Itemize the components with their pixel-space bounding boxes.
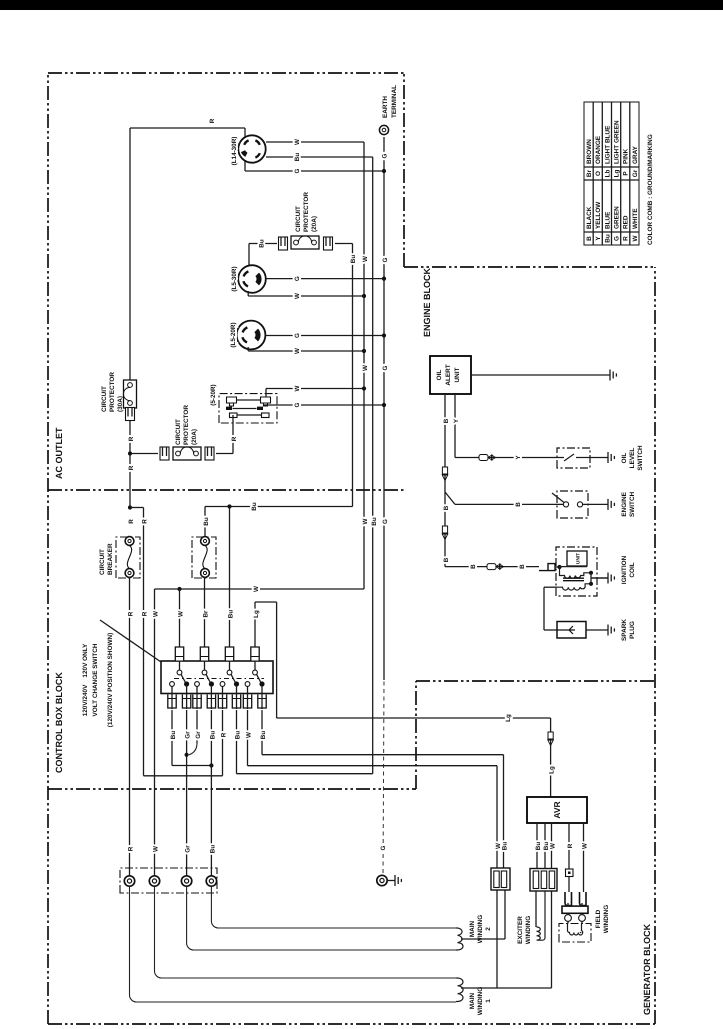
svg-text:W: W	[153, 846, 160, 852]
wire: switch out 3 Gr joining	[196, 710, 198, 743]
svg-text:Bu: Bu	[203, 517, 210, 526]
svg-text:RED: RED	[623, 215, 630, 229]
coil primary terminal	[539, 564, 555, 571]
svg-text:1: 1	[485, 999, 492, 1003]
svg-text:R: R	[142, 519, 149, 524]
wire: B to ignition coil	[445, 566, 539, 568]
svg-text:(L14-30R): (L14-30R)	[231, 137, 238, 166]
wire: G bus (solid part)	[383, 137, 385, 680]
coil core	[563, 580, 584, 582]
coil primary winding	[560, 567, 591, 578]
border: control box / generator boundary	[48, 788, 416, 790]
svg-text:P: P	[623, 171, 630, 176]
svg-text:VOLT CHANGE SWITCH: VOLT CHANGE SWITCH	[92, 643, 99, 716]
main winding 2 (Bu/Gr legs)	[187, 886, 456, 950]
spark plug symbol	[557, 626, 575, 634]
connector: Lg bullet	[548, 732, 553, 739]
wire: W to switch terminal 1	[179, 589, 181, 645]
svg-text:W: W	[550, 843, 557, 849]
svg-text:PROTECTOR: PROTECTOR	[109, 372, 116, 412]
svg-text:OIL: OIL	[436, 370, 443, 381]
wire + ground: ignition coil	[592, 577, 608, 579]
svg-text:SWITCH: SWITCH	[637, 445, 644, 471]
connector: coil B bullet	[487, 564, 504, 570]
svg-text:B: B	[515, 502, 522, 507]
svg-text:B: B	[586, 236, 593, 241]
wire: L14-30R Bu drop	[266, 156, 373, 158]
svg-text:WINDING: WINDING	[477, 987, 484, 1015]
svg-text:ORANGE: ORANGE	[595, 135, 602, 164]
svg-text:SWITCH: SWITCH	[629, 491, 636, 517]
svg-text:G: G	[294, 333, 301, 338]
exciter winding coil	[535, 891, 537, 927]
svg-text:Bu: Bu	[260, 731, 267, 740]
svg-text:MAIN: MAIN	[469, 992, 476, 1009]
wire: OAU B	[444, 394, 446, 567]
svg-text:BLACK: BLACK	[586, 206, 593, 229]
wire: L14-30R W drop	[266, 141, 364, 143]
svg-text:(L5-20R): (L5-20R)	[230, 322, 237, 347]
connector: switch output 4 Bu	[207, 695, 215, 709]
svg-text:CIRCUIT: CIRCUIT	[101, 386, 108, 412]
wire: Bu branch to switch terminal 3	[229, 507, 231, 646]
svg-text:PINK: PINK	[623, 148, 630, 164]
svg-text:Gr: Gr	[632, 169, 639, 177]
connector: switch input term Lg	[251, 647, 259, 661]
receptacle L5-20R	[237, 321, 266, 350]
svg-text:Bu: Bu	[371, 517, 378, 526]
svg-text:Bu: Bu	[259, 239, 266, 248]
wire: CP to Bu bus	[335, 243, 353, 245]
switch pole 1	[179, 661, 181, 671]
svg-text:CIRCUIT: CIRCUIT	[295, 206, 302, 232]
connector: switch output 7 W	[243, 695, 251, 709]
svg-text:W: W	[632, 235, 639, 242]
ignition coil box	[556, 547, 597, 596]
CB1 terminals and curve	[125, 537, 134, 546]
svg-text:Bu: Bu	[294, 153, 301, 162]
connector: CP20A output plug	[324, 237, 333, 250]
svg-text:R: R	[128, 436, 135, 441]
svg-text:B: B	[470, 564, 477, 569]
switch linkage dash line	[174, 678, 264, 680]
border: bottom edge	[654, 267, 656, 1024]
switch pole 4	[254, 661, 256, 671]
svg-text:Gr: Gr	[185, 731, 192, 739]
oil level switch box	[557, 448, 590, 468]
connector: switch output 8 Bu	[258, 695, 266, 709]
svg-text:Bu: Bu	[535, 842, 542, 851]
svg-text:R: R	[221, 732, 228, 737]
border: top edge of blocks	[47, 73, 49, 1024]
wire: Bu bus corner down	[205, 506, 353, 508]
svg-text:Bu: Bu	[350, 255, 357, 264]
switch pole 2	[204, 661, 206, 671]
svg-text:BLUE: BLUE	[604, 211, 611, 229]
wire: L14-30R R link	[244, 128, 246, 171]
svg-text:Gr: Gr	[195, 731, 202, 739]
wire: Bu bus (from CP 20A)	[352, 244, 354, 507]
connector: switch output 5 R	[218, 695, 226, 709]
border: AC outlet bottom right	[403, 73, 405, 267]
color code table	[584, 102, 639, 245]
svg-text:EXCITER: EXCITER	[517, 916, 524, 944]
receptacle L5-30R	[238, 265, 266, 293]
wire: G bus (dashed part to generator)	[383, 680, 384, 881]
svg-text:120V/240V 120V ONLY: 120V/240V 120V ONLY	[82, 643, 89, 716]
wire: AVR R to field	[568, 823, 570, 869]
svg-text:W: W	[362, 256, 369, 262]
svg-text:W: W	[294, 293, 301, 299]
svg-text:G: G	[380, 845, 387, 850]
svg-text:G: G	[382, 257, 389, 262]
svg-text:Lg: Lg	[253, 610, 260, 618]
svg-text:B: B	[443, 557, 450, 562]
main winding 2P connector	[491, 868, 510, 890]
svg-text:W: W	[582, 843, 589, 849]
wire: 5-20R W drop	[265, 389, 267, 398]
svg-text:R: R	[567, 843, 574, 848]
svg-text:FIELD: FIELD	[595, 909, 602, 928]
coil secondary winding	[557, 584, 591, 590]
spark plug box	[557, 622, 586, 639]
border: engine block left edge	[416, 680, 655, 682]
svg-text:SPARK: SPARK	[621, 619, 628, 641]
svg-text:Y: Y	[515, 455, 522, 460]
volt change switch box	[161, 661, 273, 694]
wire: CB2 to switch terminal 2 (Br)	[204, 577, 206, 645]
wire: switch out 8 Bu to main winding connector	[261, 710, 263, 755]
wire: W bus corner down	[155, 588, 364, 590]
main winding 1 coil	[456, 978, 463, 1002]
wire: switch out 4 Bu to Bu terminal	[210, 710, 212, 881]
svg-text:R: R	[128, 465, 135, 470]
svg-text:Bu: Bu	[235, 731, 242, 740]
wire: OAU to ground	[471, 374, 610, 376]
wire: coil secondary to spark plug	[544, 586, 557, 588]
svg-text:COLOR COMB : GROUND/MARKING: COLOR COMB : GROUND/MARKING	[647, 134, 654, 245]
svg-text:(5-20R): (5-20R)	[210, 384, 217, 405]
svg-text:G: G	[614, 236, 621, 241]
svg-text:Bu: Bu	[209, 845, 216, 854]
svg-text:Bu: Bu	[228, 610, 235, 619]
svg-text:G: G	[294, 276, 301, 281]
wire: L5-30R G drop	[266, 278, 385, 280]
receptacle 5-20R duplex box	[219, 394, 277, 423]
svg-text:R: R	[128, 519, 135, 524]
wire: L14-30R G drop	[245, 170, 384, 172]
engine switch box	[557, 491, 588, 518]
svg-text:W: W	[253, 586, 260, 592]
svg-text:YELLOW: YELLOW	[595, 201, 602, 229]
svg-text:ENGINE: ENGINE	[621, 491, 628, 516]
connector: switch input term Br	[200, 647, 208, 661]
svg-text:BROWN: BROWN	[586, 139, 593, 164]
svg-text:R: R	[209, 118, 216, 123]
svg-text:BREAKER: BREAKER	[107, 543, 114, 575]
switch pole 3	[229, 661, 231, 671]
page edge black bar	[0, 0, 723, 10]
svg-text:AC OUTLET: AC OUTLET	[54, 427, 64, 479]
UNIT box	[567, 551, 587, 566]
wire: CP20A-2 to R bus	[130, 453, 158, 455]
wire: switch out 1 Bu	[171, 710, 173, 766]
terminal W	[149, 876, 159, 886]
svg-text:W: W	[294, 385, 301, 391]
svg-text:(30A): (30A)	[117, 396, 124, 412]
svg-text:GRAY: GRAY	[632, 145, 639, 164]
svg-text:W: W	[362, 518, 369, 524]
svg-text:W: W	[294, 348, 301, 354]
svg-text:WHITE: WHITE	[632, 208, 639, 229]
wire: L5-30R W drop	[247, 291, 249, 296]
svg-text:UNIT: UNIT	[576, 553, 582, 564]
5-20R neutral T slots	[227, 397, 237, 406]
svg-text:Br: Br	[586, 169, 593, 177]
svg-text:MAIN: MAIN	[469, 920, 476, 937]
wire + ground: oil level switch	[590, 457, 608, 459]
wires AVR to exciter connector	[536, 823, 538, 869]
5-20R ground slots	[230, 413, 238, 418]
svg-text:Lg: Lg	[505, 714, 512, 722]
svg-text:Y: Y	[453, 418, 460, 423]
connector: CP20A-2 output plug	[205, 447, 214, 460]
terminal R	[124, 876, 134, 886]
connector: switch output 6 Bu	[232, 695, 240, 709]
svg-text:CONTROL BOX BLOCK: CONTROL BOX BLOCK	[54, 672, 64, 773]
svg-text:Br: Br	[203, 610, 210, 618]
border: right edge (AC outlet)	[48, 72, 404, 74]
svg-text:CIRCUIT: CIRCUIT	[175, 419, 182, 445]
svg-text:CIRCUIT: CIRCUIT	[99, 549, 106, 575]
connector: switch output 3 Gr	[193, 695, 201, 709]
circuit protector CP 20A (L5-30R)	[291, 236, 319, 249]
svg-text:R: R	[128, 846, 135, 851]
connector: CP20A input plug	[279, 237, 288, 250]
connector: switch input term W	[175, 647, 183, 661]
AVR box	[527, 797, 587, 823]
connector: CP30A plug	[126, 408, 135, 421]
svg-text:IGNITION: IGNITION	[621, 555, 628, 584]
svg-text:PROTECTOR: PROTECTOR	[183, 405, 190, 445]
circuit breaker CB1 box	[116, 537, 140, 578]
svg-text:W: W	[294, 139, 301, 145]
wire: MW2 tap to connector	[461, 938, 505, 940]
border: engine block top extension	[415, 681, 417, 789]
svg-text:LEVEL: LEVEL	[629, 448, 636, 469]
svg-text:G: G	[382, 365, 389, 370]
ground: oil alert unit	[609, 370, 611, 381]
svg-text:W: W	[153, 611, 160, 617]
svg-text:G: G	[382, 153, 389, 158]
svg-text:(L5-30R): (L5-30R)	[231, 266, 238, 291]
svg-text:WINDING: WINDING	[525, 916, 532, 944]
wire: W to W terminal	[154, 589, 156, 881]
svg-text:Bu: Bu	[170, 731, 177, 740]
brush circles	[565, 915, 572, 922]
svg-text:B: B	[443, 505, 450, 510]
pointer line	[100, 620, 161, 662]
circuit protector CP 20A (5-20R)	[173, 447, 201, 460]
connector: Y bullet pair	[479, 455, 496, 461]
field winding box	[559, 924, 591, 943]
svg-text:(120V/240V POSITION SHOWN): (120V/240V POSITION SHOWN)	[107, 633, 114, 727]
svg-text:COIL: COIL	[629, 562, 636, 577]
receptacle L14-30R	[238, 135, 265, 162]
connector: CP20A-2 input plug	[160, 447, 169, 460]
svg-text:(20A): (20A)	[311, 216, 318, 232]
wire: L5-20R W drop	[247, 347, 249, 351]
wire: OAU Y	[454, 394, 456, 430]
connector: switch input term Bu	[225, 647, 233, 661]
svg-text:OIL: OIL	[621, 453, 628, 464]
svg-text:LIGHT BLUE: LIGHT BLUE	[604, 125, 611, 164]
main winding 2 coil	[456, 928, 463, 950]
wire: R junction to CB1	[128, 505, 132, 509]
slip ring bar	[562, 906, 588, 913]
wire: R branch to volt switch (terminal 5)	[143, 508, 145, 776]
wire: L5-20R G drop	[266, 335, 385, 337]
terminal Bu	[206, 876, 216, 886]
svg-text:2: 2	[485, 927, 492, 931]
border: engine block right edge	[404, 266, 655, 268]
svg-text:(20A): (20A)	[191, 429, 198, 445]
wire + ground: engine switch	[588, 503, 608, 505]
svg-text:Y: Y	[595, 236, 602, 241]
wire: R top line	[129, 128, 131, 508]
wire: B branch to engine switch	[445, 492, 455, 504]
terminal G	[377, 875, 387, 885]
border: AC outlet / control box boundary	[48, 489, 404, 491]
wire: switch out 2 Gr to Gr terminal	[186, 710, 188, 881]
circuit protector CP 30A	[124, 380, 137, 408]
oil level switch symbol	[557, 454, 590, 461]
svg-text:Gr: Gr	[185, 845, 192, 853]
svg-text:W: W	[246, 732, 253, 738]
svg-text:R: R	[128, 611, 135, 616]
wire: Bu bus (from L14-30R)	[372, 157, 374, 774]
svg-text:Bu: Bu	[209, 731, 216, 740]
main winding 1 (R/W legs)	[130, 886, 457, 1002]
wire: switch out 7 W to main winding connector	[247, 710, 249, 766]
wire: Y to oil level switch	[454, 430, 456, 458]
border: left edge (generator block)	[48, 1023, 655, 1025]
svg-text:PROTECTOR: PROTECTOR	[303, 192, 310, 232]
svg-text:TERMINAL: TERMINAL	[391, 85, 398, 118]
svg-text:UNIT: UNIT	[454, 367, 461, 382]
svg-text:G: G	[294, 168, 301, 173]
wire: MW1 tap to connector and exciter W	[461, 987, 552, 989]
ground at G terminal	[387, 880, 395, 882]
earth terminal	[379, 125, 388, 134]
svg-text:GENERATOR BLOCK: GENERATOR BLOCK	[642, 923, 652, 1015]
wire: 5-20R G drop	[263, 404, 384, 406]
wire: CB1 to R terminal	[129, 577, 131, 881]
svg-text:R: R	[623, 236, 630, 241]
svg-text:G: G	[294, 402, 301, 407]
connector: switch output 2 Gr	[182, 695, 190, 709]
svg-text:Bu: Bu	[251, 502, 258, 511]
5-20R hot slots (black)	[226, 407, 232, 410]
output terminal box	[120, 868, 217, 893]
svg-text:GREEN: GREEN	[614, 206, 621, 229]
svg-text:R: R	[231, 436, 238, 441]
wire: W bus	[363, 142, 365, 589]
svg-text:W: W	[178, 611, 185, 617]
svg-text:AVR: AVR	[552, 801, 562, 818]
wire: Bu to CB2	[204, 507, 206, 537]
terminal Gr	[181, 876, 191, 886]
connector: B bullet 2	[442, 526, 447, 533]
connector: R square	[566, 869, 574, 877]
connector: switch output 1 Bu	[168, 695, 176, 709]
svg-text:Lg: Lg	[614, 170, 621, 178]
svg-text:B: B	[443, 418, 450, 423]
svg-text:Lg: Lg	[549, 766, 556, 774]
wire: L5-30R Bu to CP	[248, 244, 250, 266]
svg-text:O: O	[595, 171, 602, 176]
oil alert unit box	[430, 356, 471, 394]
circuit breaker CB2 box	[192, 537, 216, 578]
field winding coil	[568, 924, 583, 936]
wire: Lg from switch to AVR	[254, 602, 256, 645]
svg-text:Lb: Lb	[604, 170, 611, 178]
wire + ground: spark plug	[586, 629, 608, 631]
engine switch symbol	[557, 503, 563, 505]
svg-text:WINDING: WINDING	[603, 905, 610, 933]
svg-text:EARTH: EARTH	[382, 96, 389, 118]
svg-text:G: G	[382, 519, 389, 524]
svg-text:B: B	[519, 564, 526, 569]
svg-text:LIGHT GREEN: LIGHT GREEN	[614, 120, 621, 164]
svg-text:R: R	[142, 611, 149, 616]
field winding brushes	[565, 892, 572, 906]
connector: B bullet 1	[442, 467, 447, 474]
wire: AVR W to field	[583, 823, 585, 892]
exciter winding 3P connector	[530, 869, 557, 892]
svg-text:PLUG: PLUG	[629, 621, 636, 639]
svg-text:Bu: Bu	[604, 234, 611, 243]
wire: 5-20R R feed via CP	[232, 415, 234, 423]
svg-text:ALERT: ALERT	[445, 364, 452, 385]
wire: switch out 6 Bu to Bu bus	[236, 710, 238, 774]
svg-text:Bu: Bu	[502, 842, 509, 851]
svg-text:ENGINE BLOCK: ENGINE BLOCK	[422, 268, 432, 338]
svg-text:W: W	[362, 365, 369, 371]
